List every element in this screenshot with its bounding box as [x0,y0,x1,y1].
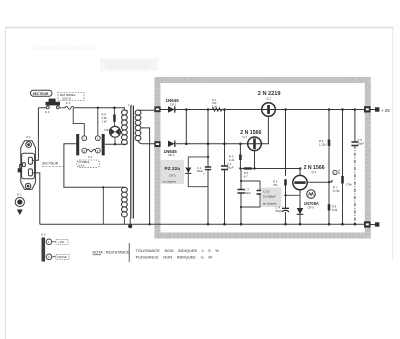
svg-text:+: + [203,172,205,176]
svg-text:CR 6: CR 6 [308,206,315,210]
node zener tap [207,143,210,146]
diode CR1 [166,98,180,113]
node rectifier join top [185,108,188,111]
band flecks [156,79,369,237]
top +DC rail [160,109,365,111]
label SECTEUR box [31,90,53,96]
svg-text:751: 751 [273,183,278,187]
svg-text:4,7: 4,7 [244,175,248,179]
node C2 top [223,108,226,111]
svg-text:SECTEUR: SECTEUR [33,92,49,96]
svg-text:PUISSANCE NON INDIQUEE ¼ W: PUISSANCE NON INDIQUEE ¼ W [136,255,213,260]
output + terminal [370,109,375,111]
feedthrough terminal left top [154,106,160,112]
page edge left [5,28,7,339]
feedthrough terminal left bottom [154,141,160,147]
C10 shaded label box [261,188,282,208]
wire fuse block left to lower primary [64,144,125,188]
primary upper winding [122,110,128,145]
svg-text:170k: 170k [346,183,352,187]
fuse block pin 1 [82,136,87,141]
transistor Q1 2N2219 [258,91,281,116]
svg-text:10 000μF: 10 000μF [263,195,276,199]
zener CR6 [297,196,319,225]
svg-text:Q 2: Q 2 [243,135,248,139]
svg-text:+ 25V: + 25V [58,240,65,244]
svg-text:50μF: 50μF [276,209,283,213]
svg-text:Q 3: Q 3 [312,170,317,174]
fuse block pin 3 [82,148,87,153]
R5 resistor on C4 line [273,179,287,187]
capacitor C2 branch [221,110,234,225]
svg-text:F 1: F 1 [66,101,71,105]
secondary centre tap [141,128,150,224]
resistor R3 [229,143,242,169]
wire rectifier join vertical [185,110,187,144]
C10 loop wires [241,181,260,207]
svg-text:FUSIBLE: FUSIBLE [79,160,90,164]
output ground terminal [370,224,375,226]
transistor Q2 2N1566 [240,130,262,151]
svg-text:E 1: E 1 [17,193,22,197]
pilot lamp DS1 [105,122,121,144]
label SECTEUR (cordon) [42,162,64,167]
node at lamp branch [113,107,116,110]
wire lamp bottom row [105,143,127,145]
svg-text:+ 25: + 25 [381,108,390,113]
svg-text:10μF: 10μF [358,142,365,146]
resistor R8 [328,204,338,212]
capacitor C1 branch [197,110,211,225]
resistor R4 inline [244,167,252,178]
fuse block label dashed [77,160,100,168]
svg-text:37 APPAREILS DE MESURE: 37 APPAREILS DE MESURE [30,46,96,52]
resistor RP [102,108,116,124]
fuse F1 [59,101,76,109]
Q3 base lead [307,181,329,183]
ground rail junction dots [148,223,356,226]
svg-text:S 2: S 2 [41,233,46,237]
feedthrough terminal right top [364,106,371,112]
svg-text:Q 1: Q 1 [267,97,272,101]
fuse F2 between pins [87,149,96,152]
svg-text:TOLERANCE NON INDIQUEE ± 5 %: TOLERANCE NON INDIQUEE ± 5 % [136,248,220,253]
capacitor C5 [351,108,364,224]
CR2 output wire [174,143,248,145]
svg-text:1,2k: 1,2k [229,158,235,162]
secondary top lead [138,109,160,111]
svg-text:R 9: R 9 [337,169,341,174]
svg-text:F 2: F 2 [88,155,92,159]
fuse block bars [76,134,105,155]
wire fuse return drop [102,187,104,224]
nota table [93,243,220,262]
svg-text:au chassis: au chassis [163,180,177,184]
secondary winding [135,110,141,141]
fuse block pin 4 [95,148,100,153]
svg-text:CR 1: CR 1 [170,102,177,106]
core ground blob [129,219,131,227]
svg-text:C 1: C 1 [197,166,202,170]
svg-text:NOTA : RESISTANCE: NOTA : RESISTANCE [93,251,131,255]
svg-text:50μF: 50μF [227,166,234,170]
C3 branch [238,169,252,225]
wire fuse to transformer primary [76,108,124,110]
wire switch left leg [38,107,46,109]
wire pin2 riser [97,108,99,136]
core [131,106,134,219]
svg-text:CR 5: CR 5 [169,174,176,178]
fuse block pin 2 [95,136,100,141]
C4 branch [276,108,290,224]
emitter rail [240,168,300,170]
svg-text:(220 V): (220 V) [62,97,71,101]
enclosure stipple texture [155,78,370,238]
diode CR2 [164,141,178,157]
svg-text:1,21k: 1,21k [319,143,326,147]
svg-text:SECTEUR: SECTEUR [42,162,59,166]
primary lower winding [122,187,128,217]
transformer T1 [122,104,141,229]
transistor Q3 2N1566 [293,165,325,196]
resistor R9 [337,108,352,224]
connector earth pin [20,164,23,168]
shielded enclosure stippled border [157,80,367,236]
secondary bottom lead [138,141,160,144]
svg-text:PZ 22a: PZ 22a [165,166,181,172]
svg-text:MASSE: MASSE [58,255,67,259]
resistor R6 [319,108,330,224]
svg-text:C 10: C 10 [263,190,270,194]
ground rail / earth return wire [40,223,365,225]
svg-text:P 1: P 1 [27,135,32,139]
page edge top [5,27,394,29]
resistor R1 inline [212,98,222,111]
svg-text:5,6k: 5,6k [332,208,338,212]
Q2 emitter lead down [254,151,256,169]
label batteries dashed [58,93,84,101]
wire connector bottom slot to earth line [32,173,39,224]
svg-text:CR 2: CR 2 [168,153,175,157]
wire connector top slot to switch [32,108,38,161]
ground stud E1 [15,193,24,216]
wire pin1 riser [73,108,84,136]
svg-text:1 W: 1 W [102,120,107,124]
page edge right [392,28,394,261]
svg-text:5,75k: 5,75k [333,189,340,193]
capacitor C10 [257,191,264,195]
mains connector P1 [21,135,36,189]
feedthrough terminal right bottom [364,221,371,227]
potentiometer R7 wiper [328,170,340,193]
node C1 top [207,108,210,111]
svg-text:0,5 A.: 0,5 A. [79,164,86,168]
Q1 base lead [262,116,269,144]
node rectifier join bottom [185,143,188,146]
connector S2 [41,233,69,262]
svg-text:S 1: S 1 [45,110,50,114]
switch S1 [45,99,60,114]
PZ 22a shaded label box [161,160,185,184]
svg-text:50μF: 50μF [245,191,252,195]
wire R5 to Q3 emitter [284,194,286,196]
meter balloon M [307,190,316,199]
zener CR5 loop [185,157,208,187]
